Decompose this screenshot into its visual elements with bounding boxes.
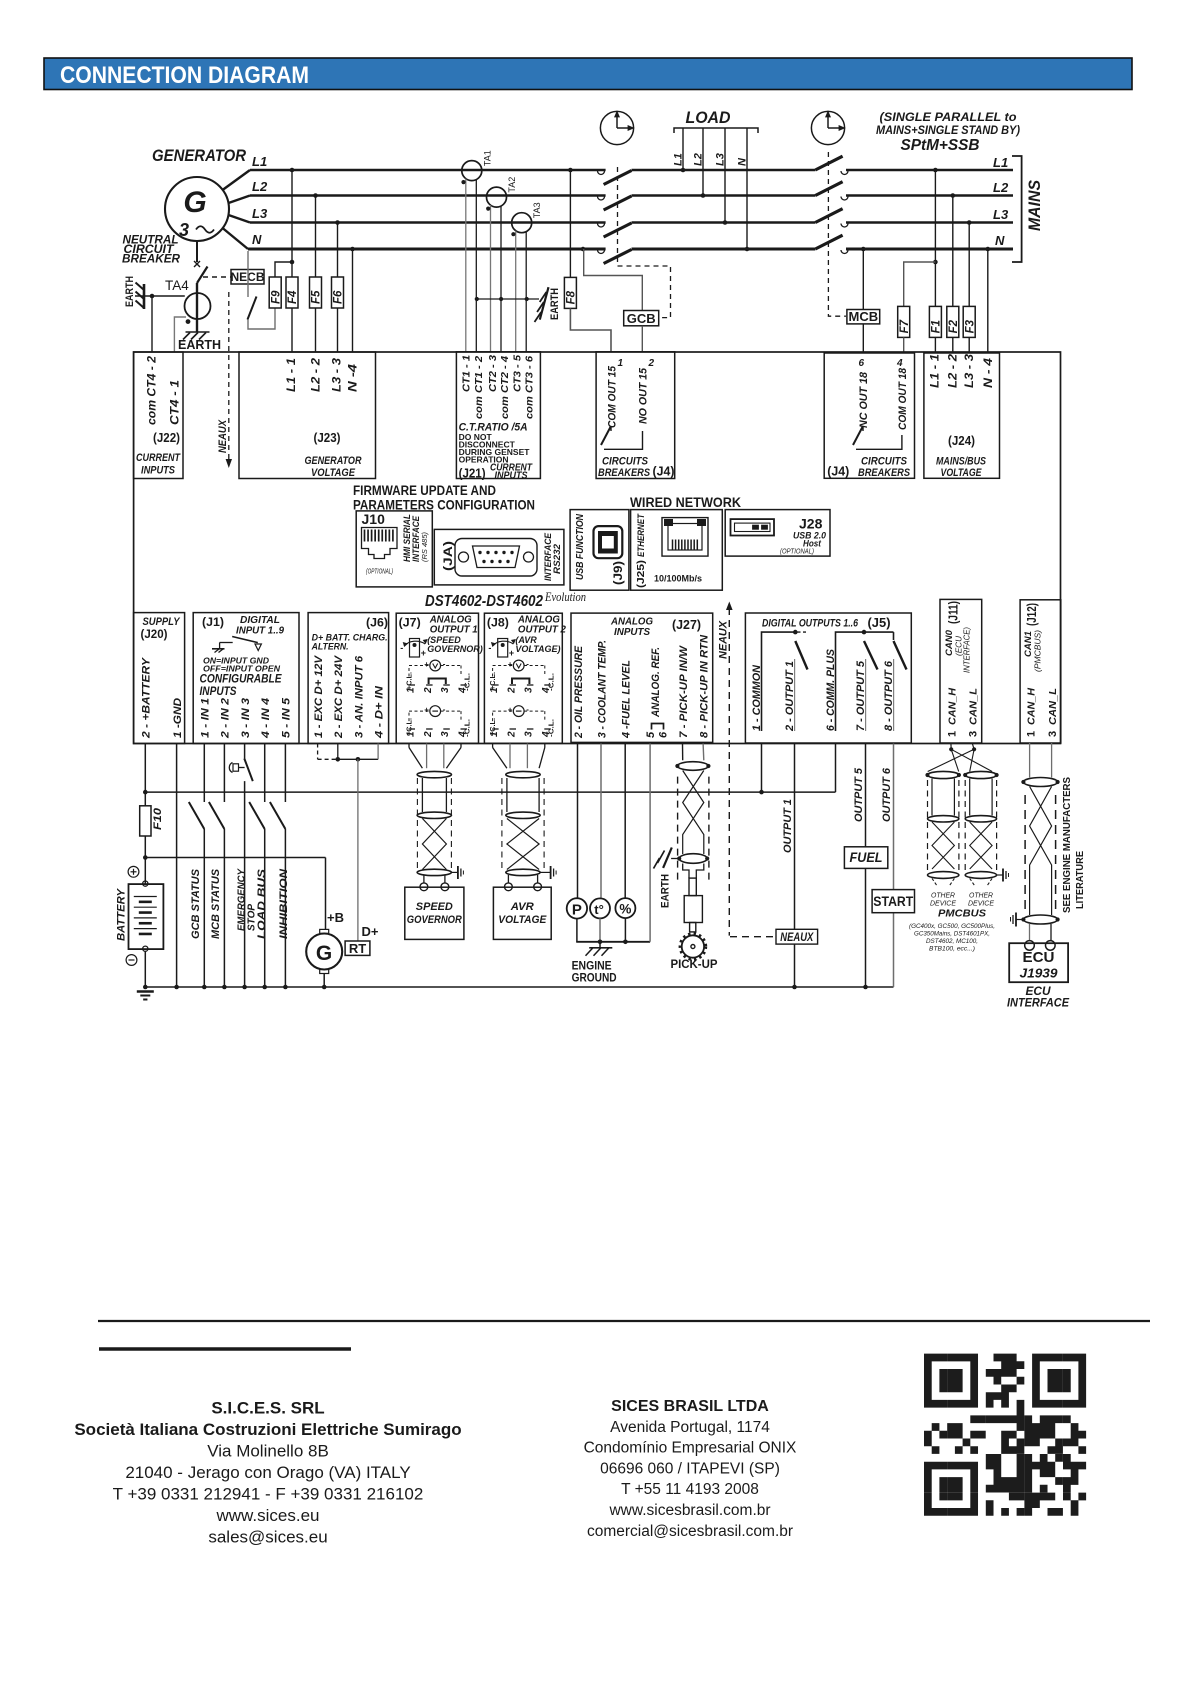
svg-text:21040 - Jerago con Orago (VA): 21040 - Jerago con Orago (VA) ITALY (125, 1463, 410, 1482)
node (313, 193, 318, 198)
wire (968, 337, 970, 353)
J20 caption (141, 616, 181, 641)
svg-text:-: - (400, 643, 403, 653)
ECU terminals (1025, 941, 1055, 951)
svg-text:4 - D+ IN: 4 - D+ IN (374, 685, 386, 739)
svg-text:COM OUT 15: COM OUT 15 (606, 365, 618, 428)
wire OUTPUT6 (881, 744, 894, 988)
svg-text:-: - (443, 705, 446, 714)
node (143, 790, 148, 795)
svg-text:COM OUT 18: COM OUT 18 (897, 367, 909, 430)
svg-text:Host: Host (803, 539, 822, 549)
svg-text:BTB100, ecc...): BTB100, ecc...) (929, 946, 975, 953)
J4-2 caption (827, 456, 910, 480)
svg-text:T +39 0331 212941 - F +39 0331: T +39 0331 212941 - F +39 0331 216102 (113, 1485, 424, 1504)
svg-text:Società Italiana Costruzioni E: Società Italiana Costruzioni Elettriche … (74, 1420, 461, 1439)
J10 RJ45 icon (362, 528, 398, 559)
svg-text:CT1 - 1: CT1 - 1 (460, 355, 472, 392)
svg-text:DIGITAL OUTPUTS 1..6: DIGITAL OUTPUTS 1..6 (762, 618, 859, 630)
svg-text:2: 2 (423, 731, 434, 738)
svg-text:4: 4 (896, 358, 903, 369)
RT box (345, 941, 370, 956)
svg-text:(J1): (J1) (202, 615, 224, 629)
wire (152, 295, 185, 297)
wire (934, 170, 936, 306)
J23 terminal labels (286, 357, 360, 392)
svg-text:L1 - 1: L1 - 1 (286, 358, 298, 392)
svg-text:F5: F5 (311, 290, 323, 304)
J20 terminal labels (141, 656, 184, 739)
svg-text:1: 1 (946, 731, 958, 737)
wire (987, 249, 989, 353)
J24 terminal labels (930, 353, 995, 388)
wire +B (325, 858, 327, 930)
svg-text:INPUTS: INPUTS (495, 471, 528, 482)
svg-text:NC OUT 18: NC OUT 18 (858, 371, 870, 428)
earth symbol left of TA4 (124, 276, 144, 309)
ECU J1939 box (1009, 943, 1068, 982)
svg-text:2 - EXC D+ 24V: 2 - EXC D+ 24V (333, 654, 345, 739)
MCB linkage dashed (828, 152, 846, 316)
svg-text:+: + (509, 648, 514, 658)
J12 labels (1023, 603, 1043, 672)
node (150, 294, 155, 299)
wire (862, 249, 864, 310)
svg-text:BREAKERS: BREAKERS (858, 467, 911, 479)
wire (1030, 924, 1052, 941)
earth symbol CT common (535, 287, 562, 322)
node x-mark (194, 261, 200, 267)
wire (196, 241, 198, 262)
svg-text:L3: L3 (993, 207, 1009, 222)
svg-text:3: 3 (440, 687, 451, 693)
bus labels (252, 154, 268, 247)
PMCBUS cable 1 (925, 771, 961, 886)
svg-text:(OPTIONAL): (OPTIONAL) (366, 569, 393, 576)
svg-text:4: 4 (457, 731, 468, 738)
J5 output contacts (762, 630, 907, 731)
svg-text:(J23): (J23) (314, 431, 341, 445)
relay contact J4-1 (601, 426, 643, 449)
J21 caption (490, 463, 533, 482)
title bar (44, 58, 1132, 90)
svg-text:N: N (995, 233, 1005, 248)
wire F7 tap (904, 262, 936, 306)
bus L2 (250, 194, 1013, 197)
svg-text:6: 6 (859, 358, 865, 369)
battery (129, 881, 164, 951)
ECU cable drain (1011, 913, 1024, 927)
svg-text:ETHERNET: ETHERNET (636, 513, 647, 557)
SPtM note (876, 112, 1020, 154)
MCB pole L2 (815, 182, 848, 200)
svg-text:L2: L2 (252, 179, 268, 194)
svg-text:N -4: N -4 (348, 363, 360, 392)
fuse F4 (286, 277, 299, 308)
node (290, 168, 295, 173)
fuse F5 (310, 277, 323, 308)
J4-1 caption (598, 456, 675, 480)
svg-text:F6: F6 (333, 290, 345, 304)
PMCBUS device list (909, 923, 995, 953)
AVR cable (493, 744, 556, 891)
svg-text:MAINS+SINGLE STAND BY): MAINS+SINGLE STAND BY) (876, 125, 1020, 137)
svg-text:2: 2 (423, 687, 434, 694)
svg-text:(J22): (J22) (153, 431, 180, 445)
node (143, 985, 148, 990)
svg-text:F4: F4 (287, 290, 299, 304)
svg-text:(J24): (J24) (948, 434, 975, 448)
svg-text:(J8): (J8) (487, 616, 509, 630)
J28 USB-A icon (731, 519, 775, 535)
svg-text:OUTPUT 1: OUTPUT 1 (782, 799, 794, 853)
svg-text:RT: RT (349, 941, 366, 956)
node (335, 220, 340, 225)
svg-text:CURRENT: CURRENT (136, 452, 181, 464)
svg-text:L2: L2 (993, 180, 1009, 195)
svg-text:F1: F1 (931, 320, 943, 333)
svg-text:MCB STATUS: MCB STATUS (210, 868, 222, 939)
J11 labels (944, 601, 972, 673)
terminal block J20 (134, 613, 185, 744)
svg-text:(PMCBUS): (PMCBUS) (1034, 630, 1043, 672)
svg-text:OTHER: OTHER (969, 893, 993, 900)
svg-text:1: 1 (489, 687, 500, 693)
MAINS labels (993, 155, 1009, 248)
GCB pole L3 (598, 223, 632, 237)
svg-text:10/100Mb/s: 10/100Mb/s (654, 574, 702, 585)
svg-text:GCB STATUS: GCB STATUS (190, 868, 202, 939)
svg-text:L3: L3 (715, 153, 727, 166)
svg-text:(J6): (J6) (366, 616, 388, 630)
svg-text:(RS 485): (RS 485) (420, 532, 429, 562)
svg-text:D+: D+ (362, 925, 379, 939)
speed governor cable (409, 744, 463, 891)
wire GND (174, 744, 179, 990)
svg-text:DEVICE: DEVICE (930, 901, 956, 908)
svg-text:com CT2 - 4: com CT2 - 4 (499, 356, 511, 419)
svg-text:+C.L.: +C.L. (407, 672, 414, 690)
generator G symbol (165, 177, 229, 241)
svg-text:AVR: AVR (510, 901, 534, 913)
ground (generator earth) (178, 332, 221, 352)
svg-text:ALTERN.: ALTERN. (311, 642, 349, 653)
svg-text:3: 3 (524, 731, 535, 737)
terminal block J23 (239, 352, 376, 479)
J1 caption top (236, 615, 284, 637)
address SICES BRASIL (584, 1398, 797, 1540)
pickup earth drain (654, 848, 680, 909)
svg-text:BREAKER: BREAKER (122, 252, 180, 266)
svg-text:L1: L1 (673, 153, 685, 166)
J23 caption (305, 455, 362, 479)
wire (223, 228, 249, 249)
node (933, 168, 938, 173)
svg-text:LOAD BUS: LOAD BUS (256, 868, 268, 939)
wire OUTPUT1 (782, 744, 797, 990)
J6 terminal labels (313, 654, 386, 739)
J11 terminal labels (946, 688, 979, 737)
wire (229, 196, 251, 204)
svg-text:-: - (526, 705, 529, 714)
wire (577, 744, 579, 899)
svg-text:(J20): (J20) (141, 627, 168, 641)
svg-text:INPUTS: INPUTS (141, 465, 176, 477)
NEAUX dashed arrow (217, 292, 232, 468)
J5 terminal labels (751, 648, 895, 732)
svg-text:GC350Mains, DST4601PX,: GC350Mains, DST4601PX, (914, 931, 990, 938)
GCB pole L1 (598, 171, 632, 185)
svg-text:DST4602-DST4602: DST4602-DST4602 (425, 593, 543, 610)
svg-text:OUTPUT 5: OUTPUT 5 (853, 767, 865, 822)
wire (247, 251, 249, 297)
svg-text:SPEED: SPEED (416, 901, 453, 913)
svg-text:SEE ENGINE MANUFACTERS: SEE ENGINE MANUFACTERS (1061, 777, 1073, 913)
NEAUX dashed arrow right (718, 602, 733, 936)
wire (144, 836, 146, 884)
J10 side caption (402, 514, 429, 562)
svg-text:NEAUX: NEAUX (217, 419, 229, 453)
svg-text:%: % (619, 902, 631, 917)
svg-text:L2 - 2: L2 - 2 (947, 353, 959, 388)
svg-text:BATTERY: BATTERY (116, 887, 128, 941)
wire (599, 918, 601, 941)
CT TA3 (511, 202, 542, 352)
wire (315, 196, 317, 278)
GCB pole L2 (598, 196, 632, 210)
NECB switch blade (197, 267, 208, 284)
svg-text:ECU: ECU (1023, 949, 1055, 966)
gauge P (oil pressure) (567, 898, 587, 918)
wire (569, 170, 571, 277)
wire (952, 196, 954, 307)
connector J10 (HMI serial) (356, 511, 432, 587)
node (350, 247, 355, 252)
svg-text:7 - PICK-UP IN/W: 7 - PICK-UP IN/W (678, 644, 690, 738)
wire (144, 951, 146, 987)
svg-text:+: + (424, 660, 429, 669)
svg-text:t°: t° (594, 902, 604, 917)
connector J25 (ethernet) (631, 510, 723, 591)
svg-text:com CT1 - 2: com CT1 - 2 (473, 356, 485, 419)
svg-text:com CT3 - 6: com CT3 - 6 (524, 356, 536, 419)
fuse F1 (929, 306, 942, 337)
svg-text:(JA): (JA) (441, 541, 455, 571)
engine ground label (572, 959, 617, 985)
MCB box (847, 309, 880, 324)
svg-text:3: 3 (1047, 731, 1059, 737)
wire (291, 170, 293, 277)
JA side caption (543, 532, 563, 581)
CT TA2 (486, 177, 517, 352)
J1 terminal labels (200, 697, 293, 739)
fuse F2 (947, 306, 960, 337)
svg-text:EARTH: EARTH (660, 874, 672, 908)
svg-text:START: START (873, 894, 914, 909)
J27 caption (610, 616, 653, 639)
PMCBUS cable 2 (963, 771, 999, 886)
other device 1 (930, 893, 956, 908)
wire (337, 308, 339, 352)
svg-text:06696 060 / ITAPEVI (SP): 06696 060 / ITAPEVI (SP) (600, 1460, 780, 1477)
svg-text:+: + (508, 660, 513, 669)
svg-text:+: + (421, 648, 426, 658)
svg-text:SICES BRASIL LTDA: SICES BRASIL LTDA (611, 1398, 769, 1415)
node (290, 260, 295, 265)
wire (144, 744, 146, 806)
wire COMMON (759, 744, 764, 795)
svg-text:3 - AN. INPUT 6: 3 - AN. INPUT 6 (353, 655, 365, 738)
terminal block J21 (456, 352, 540, 479)
ECU interface label (1007, 986, 1069, 1010)
svg-text:L1 - 1: L1 - 1 (930, 354, 942, 388)
J25 RJ45 icon (662, 518, 708, 557)
svg-text:NEAUX: NEAUX (718, 620, 730, 659)
JA DB9 icon (455, 539, 537, 577)
svg-text:GROUND: GROUND (572, 971, 617, 985)
wire (248, 308, 275, 329)
other device 2 (968, 893, 994, 908)
svg-text:ANALOG. REF.: ANALOG. REF. (650, 647, 662, 718)
wire (903, 337, 905, 353)
ground symbol (137, 992, 154, 1000)
svg-text:Avenida Portugal, 1174: Avenida Portugal, 1174 (610, 1419, 770, 1436)
fuse F6 (332, 277, 345, 308)
svg-text:6: 6 (658, 731, 670, 738)
svg-text:2: 2 (648, 358, 655, 369)
svg-text:F7: F7 (899, 319, 911, 333)
input wire IN3 emergency stop (229, 744, 257, 990)
NEAUX box (730, 929, 818, 944)
svg-text:F2: F2 (948, 319, 960, 333)
svg-text:OUTPUT 6: OUTPUT 6 (881, 767, 893, 822)
svg-text:BREAKERS: BREAKERS (598, 467, 651, 479)
svg-text:FIRMWARE UPDATE AND: FIRMWARE UPDATE AND (353, 483, 496, 498)
wire F9 tap (275, 262, 292, 277)
gauge % (fuel level) (615, 898, 635, 918)
svg-text:L1: L1 (252, 154, 267, 169)
svg-text:J10: J10 (362, 511, 386, 527)
svg-text:L3 - 3: L3 - 3 (332, 357, 344, 392)
svg-text:TA1: TA1 (482, 150, 492, 166)
J21 ratio note (459, 422, 531, 465)
terminal block J1 (193, 613, 299, 744)
svg-text:L3 - 3: L3 - 3 (964, 353, 976, 388)
wire (291, 308, 293, 352)
svg-text:INTERFACE: INTERFACE (1007, 998, 1069, 1010)
terminal block J24 (924, 353, 1000, 478)
svg-text:3: 3 (524, 687, 535, 693)
svg-text:(J27): (J27) (672, 618, 701, 632)
svg-text:WIRED NETWORK: WIRED NETWORK (630, 495, 741, 510)
svg-text:(J25): (J25) (635, 560, 647, 588)
load tap L2 (693, 128, 706, 198)
svg-text:CONNECTION DIAGRAM: CONNECTION DIAGRAM (60, 62, 309, 89)
svg-text:3: 3 (968, 731, 980, 737)
svg-text:CIRCUITS: CIRCUITS (861, 456, 908, 468)
svg-text:3: 3 (179, 220, 189, 240)
terminal block J27 (571, 613, 713, 742)
load tap L1 (673, 128, 686, 172)
load tap N (737, 128, 750, 251)
svg-text:MCB: MCB (848, 309, 878, 324)
wire (600, 744, 602, 899)
fuse F3 (963, 306, 976, 337)
svg-text:INTERFACE): INTERFACE) (963, 627, 972, 673)
bus N (248, 248, 1013, 251)
terminal block J7 (analog output 1) (396, 613, 483, 743)
svg-text:FUEL: FUEL (850, 850, 883, 865)
svg-text:TA2: TA2 (507, 177, 517, 193)
svg-text:CAN_H: CAN_H (946, 688, 958, 725)
svg-text:LOAD: LOAD (686, 108, 731, 127)
svg-text:N - 4: N - 4 (983, 357, 995, 388)
svg-text:CAN_L: CAN_L (1047, 688, 1059, 725)
pickup cable (675, 744, 710, 885)
svg-text:P: P (572, 902, 582, 919)
svg-text:+B: +B (327, 911, 344, 925)
svg-text:(J12): (J12) (1024, 603, 1039, 626)
svg-text:EARTH: EARTH (178, 338, 221, 352)
svg-text:INPUT 1..9: INPUT 1..9 (236, 626, 284, 637)
svg-text:1: 1 (618, 358, 624, 369)
wire (135, 295, 152, 297)
svg-text:5: 5 (645, 731, 657, 738)
wire (570, 308, 611, 352)
wire (624, 744, 626, 899)
bus L1 (250, 169, 1013, 172)
svg-text:VOLTAGE: VOLTAGE (498, 914, 547, 926)
svg-text:F3: F3 (964, 319, 976, 333)
terminal block J5 (745, 613, 911, 743)
charge alternator G (306, 929, 342, 989)
svg-text:T +55 11 4193 2008: T +55 11 4193 2008 (621, 1481, 759, 1498)
svg-text:5 - IN 5: 5 - IN 5 (281, 697, 293, 738)
J28 label (780, 516, 826, 556)
load tap L3 (715, 128, 728, 225)
MCB pole L3 (815, 209, 848, 227)
node (986, 247, 991, 252)
svg-text:(J7): (J7) (399, 616, 421, 630)
svg-text:TA3: TA3 (532, 202, 542, 218)
J1 note (200, 656, 282, 699)
ground bus (145, 986, 893, 988)
svg-text:1: 1 (489, 731, 500, 737)
svg-text:INPUTS: INPUTS (200, 686, 237, 698)
svg-text:2 - OIL PRESSURE: 2 - OIL PRESSURE (573, 645, 585, 739)
svg-text:Evolution: Evolution (544, 589, 586, 604)
svg-text:VOLTAGE: VOLTAGE (311, 467, 356, 479)
svg-text:CAN1: CAN1 (1023, 631, 1033, 657)
fuse F8 (564, 277, 577, 308)
terminal block J12 (1020, 600, 1061, 743)
svg-text:+C.L.: +C.L. (490, 672, 497, 690)
svg-text:4: 4 (541, 731, 552, 738)
svg-text:DST4602, MC100,: DST4602, MC100, (926, 938, 978, 945)
wire (151, 296, 153, 352)
svg-text:(J5): (J5) (868, 616, 891, 630)
address S.I.C.E.S. SRL (74, 1399, 461, 1547)
svg-text:4: 4 (541, 687, 552, 694)
svg-text:RS232: RS232 (552, 543, 563, 574)
svg-text:GCB: GCB (627, 311, 656, 326)
svg-text:(J21): (J21) (459, 467, 486, 481)
svg-text:F9: F9 (270, 290, 282, 304)
GCB pole N (598, 250, 632, 264)
J22 caption (136, 452, 181, 477)
svg-text:F8: F8 (566, 290, 578, 304)
svg-text:(J9): (J9) (611, 561, 625, 585)
